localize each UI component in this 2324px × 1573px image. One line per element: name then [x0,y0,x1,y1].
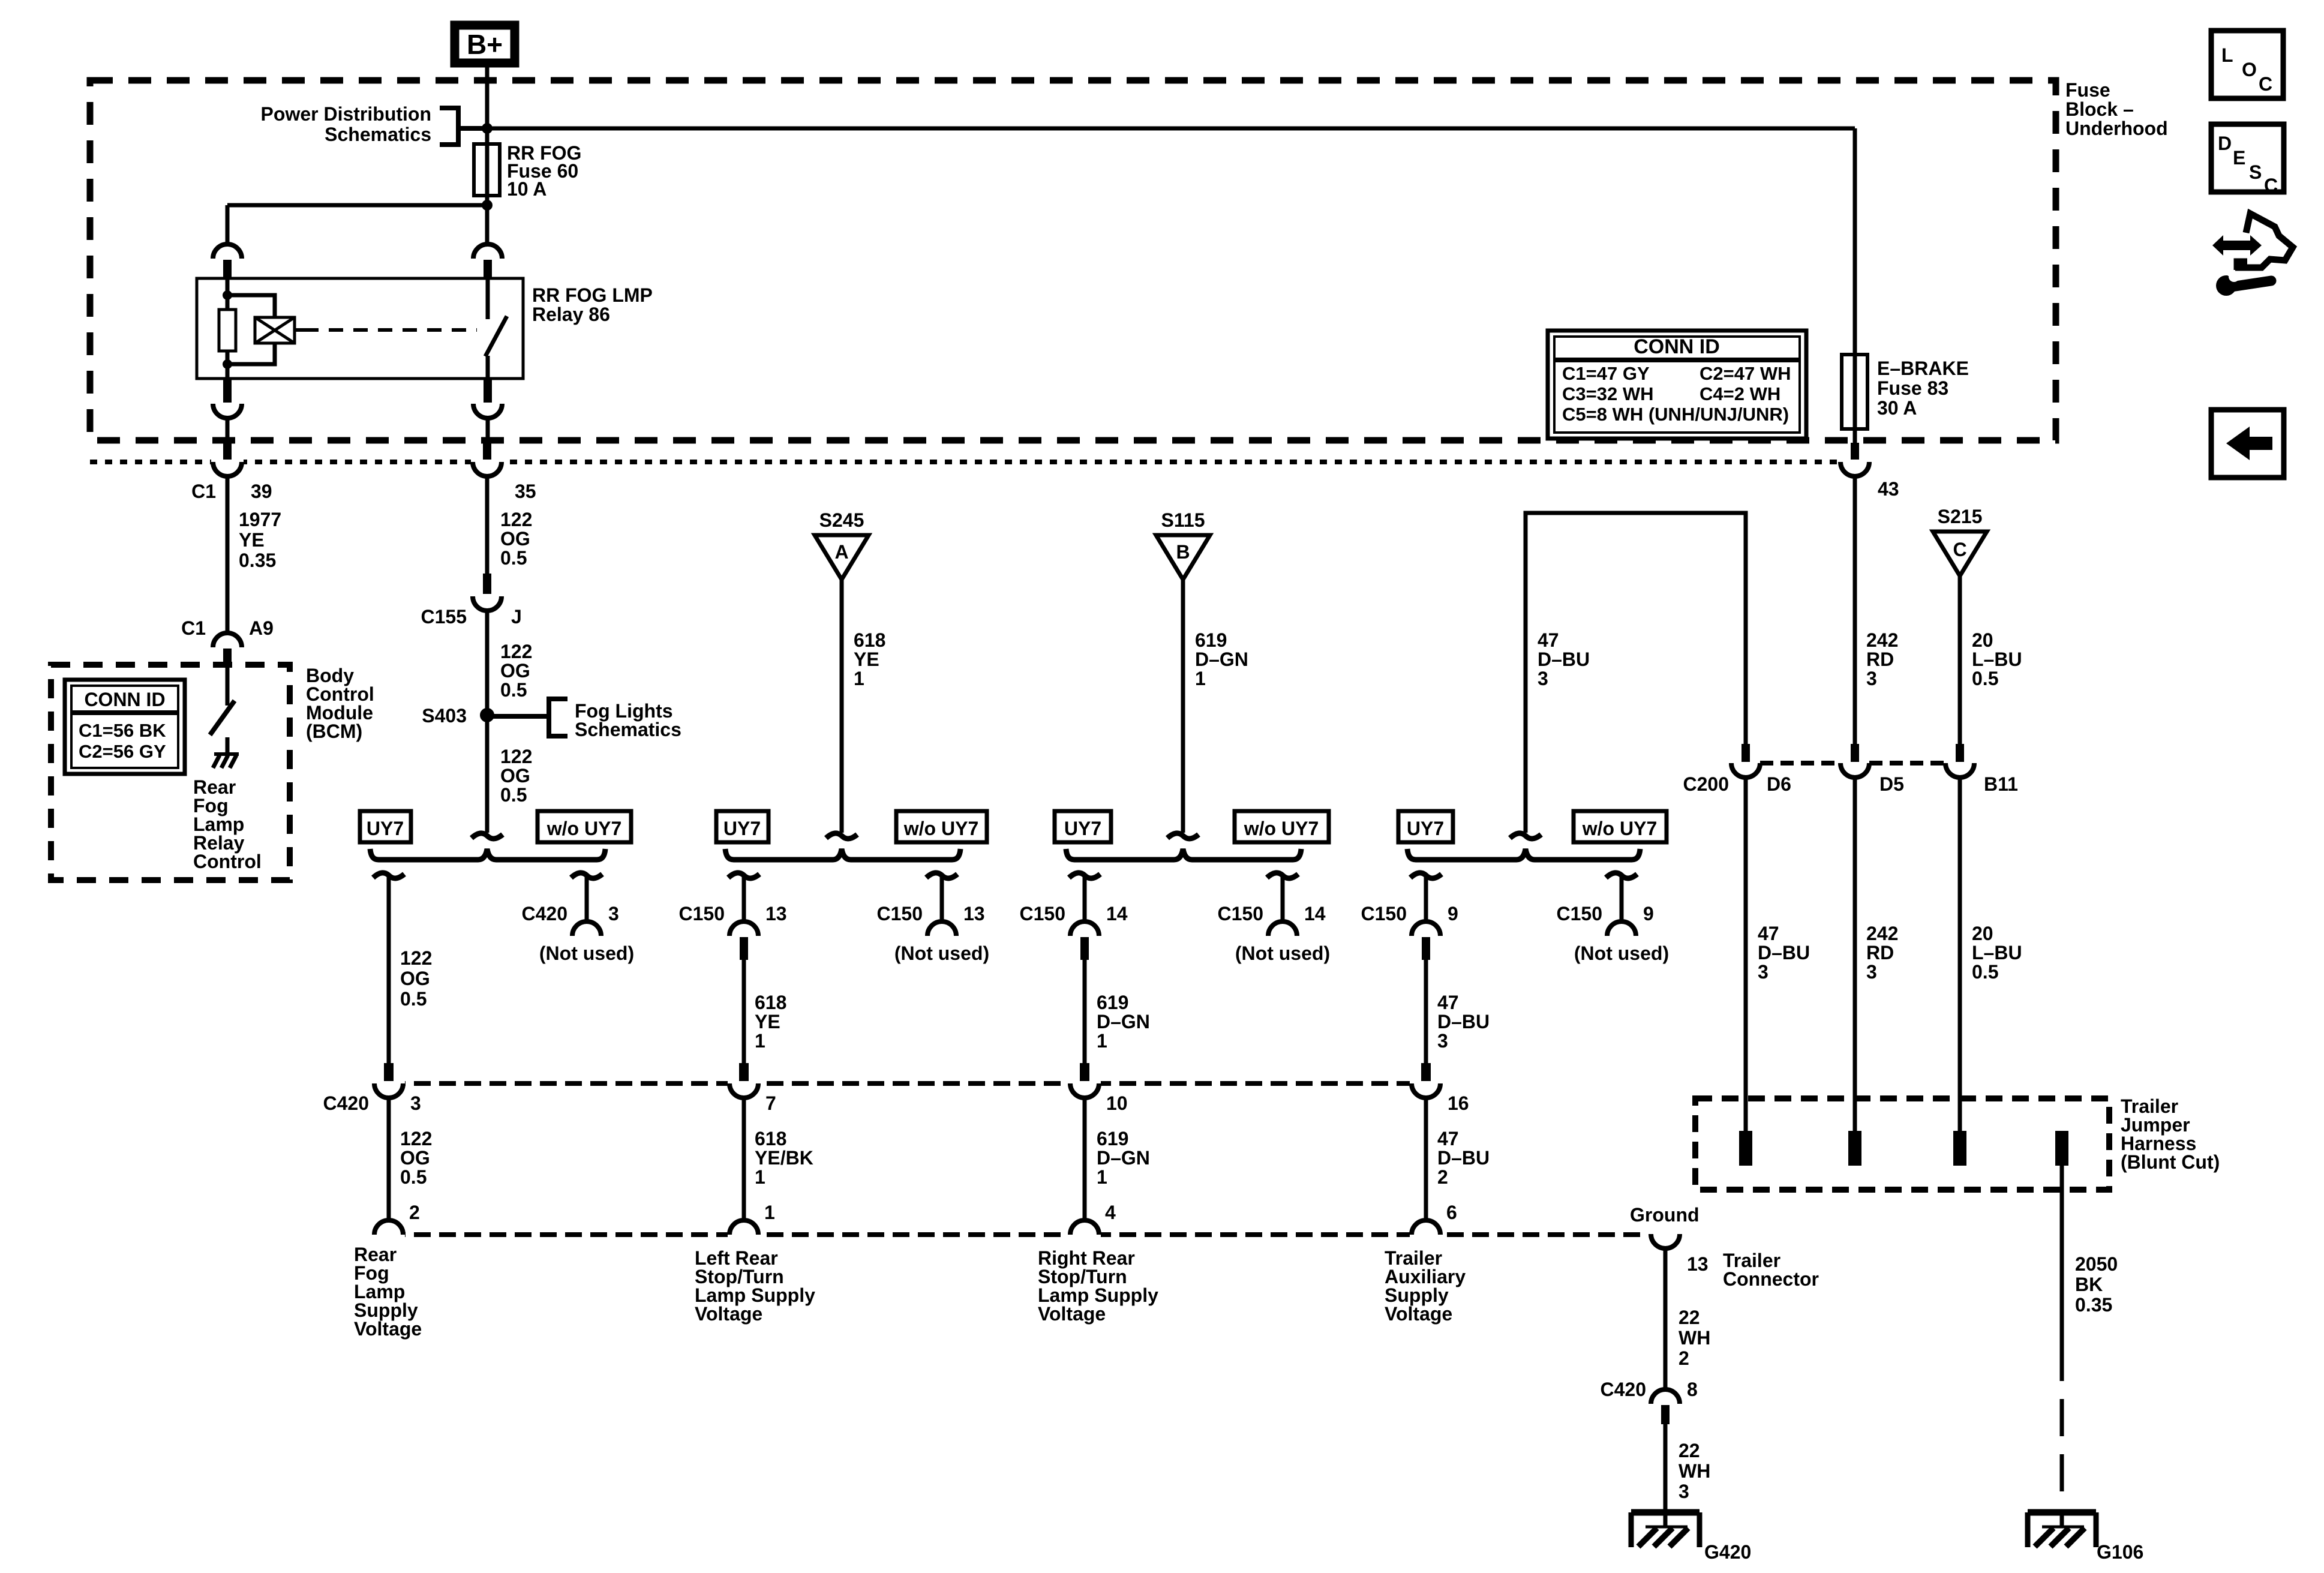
option box UY7 (group at x=1403) [716,811,768,842]
terminal pin C155 pin J [483,574,491,594]
svg-text:G106: G106 [2097,1541,2143,1563]
svg-text:C420: C420 [323,1092,370,1114]
svg-text:w/o UY7: w/o UY7 [903,818,978,839]
wire left branch lower x=1808 [1083,960,1087,1063]
blunt-cut terminal x=3092 [1848,1131,1861,1166]
connector half underhood cavity 35 [471,457,503,467]
connector half relay pin top-left [213,244,242,259]
wire-break mark left branch break x=648 [373,873,404,878]
wire relay coil-left lower [226,351,230,379]
wire left branch lower x=2377 [1424,960,1428,1063]
svg-text:A9: A9 [249,617,274,639]
wire circuit 22 WH segment 2 [1664,1424,1668,1527]
wire circuit 47 D-BU to trailer harness [1744,778,1748,1131]
wire left branch upper x=2377 [1424,876,1428,923]
wire drop below row1 x=1808 [1083,1098,1087,1220]
svg-text:w/o UY7: w/o UY7 [1244,818,1319,839]
wire left branch lower x=1240 [742,960,746,1063]
svg-text:C1=56 BKC2=56 GY: C1=56 BKC2=56 GY [79,720,166,762]
svg-text:4: 4 [1105,1202,1116,1223]
icon LOC box [2211,31,2283,98]
blunt-cut terminal x=3267 [1953,1131,1966,1166]
terminal pin underhood pin 43 [1851,443,1859,460]
terminal pin relay top-left [223,260,232,278]
terminal pin C200 pin B11 [1956,744,1964,762]
wire power bus drop through E-BRAKE fuse [1853,128,1857,443]
svg-text:C200: C200 [1683,773,1730,795]
wire relay out left [226,418,230,443]
wire circuit 20 L-BU from S215 [1958,576,1962,744]
resistor relay suppression [219,310,236,351]
load connector row dashed line [389,1232,1647,1237]
blunt-cut terminal x=3437 [2055,1131,2068,1166]
wire coil top link [227,295,275,317]
svg-text:Ground: Ground [1630,1204,1700,1226]
svg-text:C150: C150 [1361,903,1407,924]
connector half C150 cavity 14 (w/o UY7, not used) [1268,921,1297,936]
svg-text:(Not used): (Not used) [894,942,989,964]
svg-text:C155: C155 [421,606,467,628]
wire drop below row1 x=1240 [742,1098,746,1220]
wire left branch upper x=1808 [1083,876,1087,923]
wire coil bottom link [227,343,275,364]
wire-break mark 47 harness break [1510,833,1541,839]
wire right branch x=2138 [1281,876,1285,923]
svg-text:UY7: UY7 [1407,818,1444,839]
icon DESC box [2211,124,2284,192]
option box w/o UY7 (group at x=1403) [896,811,987,842]
wire circuit 2050 BK dashed (blunt cut) [2060,1344,2064,1527]
connector half C150 cavity 13 (w/o UY7, not used) [927,921,956,936]
harness split brace group at x=1972 [1066,849,1301,860]
svg-text:UY7: UY7 [1064,818,1101,839]
connector half C200 cavity D5 [1840,763,1869,778]
relay switch blade [485,316,507,356]
ground symbol G106 [2028,1512,2096,1547]
wire relay switch output [486,356,490,379]
svg-text:Fog LightsSchematics: Fog LightsSchematics [575,700,681,740]
wire power distribution bus to E-BRAKE fuse [487,127,1855,131]
svg-text:7: 7 [765,1092,776,1114]
wire circuit 1977 YE [226,476,230,634]
svg-text:w/o UY7: w/o UY7 [547,818,621,839]
svg-text:9: 9 [1448,903,1458,924]
connector half C150 cavity 9 (UY7) [1412,921,1440,936]
wire coil to actuator link [295,328,304,332]
connector half C200 cavity B11 [1945,763,1974,778]
svg-text:14: 14 [1106,903,1128,924]
svg-text:C420: C420 [1601,1379,1647,1400]
svg-text:(Not used): (Not used) [539,942,634,964]
connector half underhood cavity 43 [1839,457,1871,467]
harness split brace group at x=1403 [725,849,960,860]
junction relay coil bottom junction [223,359,232,369]
wire right branch x=2703 [1620,876,1624,923]
svg-text:C1: C1 [191,481,216,502]
svg-text:UY7: UY7 [367,818,404,839]
connector half C420 cavity 3 (w/o UY7, not used) [572,921,601,936]
terminal pin row pin 3 [384,1063,394,1081]
wire branch to relay coil [227,203,487,208]
svg-text:16: 16 [1448,1092,1469,1114]
option box UY7 (group at x=2543) [1398,811,1453,842]
Fuse Block Underhood dashed boundary box [90,80,2056,440]
svg-text:10: 10 [1106,1092,1128,1114]
svg-text:w/o UY7: w/o UY7 [1582,818,1657,839]
svg-text:1: 1 [764,1202,775,1223]
connector row dashed line (rear body) [389,1081,1426,1086]
svg-text:C150: C150 [679,903,725,924]
svg-text:2: 2 [409,1202,420,1223]
svg-text:8: 8 [1687,1379,1698,1400]
option box w/o UY7 (group at x=812) [538,811,631,842]
option box UY7 (group at x=1972) [1055,811,1111,842]
connector Trailer Jumper Harness dashed box [1695,1098,2109,1190]
reference bracket Power Distribution Schematics [440,108,487,145]
svg-text:C150: C150 [877,903,923,924]
wire circuit 242 RD to trailer harness [1853,778,1857,1131]
terminal pin C200 pin D5 [1851,744,1859,762]
svg-text:13: 13 [963,903,985,924]
wire coil side drop [226,205,230,245]
harness split brace group at x=812 [370,849,605,860]
connector half load cavity 4 [1068,1229,1101,1240]
svg-text:S215: S215 [1938,506,1983,527]
svg-text:C150: C150 [1557,903,1603,924]
reference bracket Fog Lights Schematics [487,699,568,736]
connector half C150 cavity 14 (UY7) [1070,921,1099,936]
connector half load cavity 6 [1410,1229,1442,1240]
ground BCM internal [213,754,239,768]
wire-break mark right branch break x=1570 [926,873,957,878]
connector half C1 pin A9 [213,633,242,647]
svg-text:6: 6 [1446,1202,1457,1223]
svg-text:D6: D6 [1767,773,1791,795]
wire drop below row1 x=2377 [1424,1098,1428,1220]
svg-text:G420: G420 [1704,1541,1751,1563]
wire B+ feed down to relay (through Fuse 60) [485,67,490,245]
connector half load cavity 1 [728,1229,760,1240]
terminal pin relay bottom-right [484,379,492,403]
terminal pin row pin 7 [739,1063,749,1081]
svg-text:(Not used): (Not used) [1235,942,1330,964]
svg-text:B11: B11 [1984,773,2018,795]
wire-break mark left branch break x=1240 [728,873,759,878]
connector half row cavity 3 [373,1078,405,1089]
wire relay out right [486,418,490,443]
terminal pin C200 pin D6 [1742,744,1750,762]
wire-break mark right branch break x=2703 [1606,873,1637,878]
wire drop below row1 x=648 [387,1098,391,1220]
table CONN ID (fuse block underhood) [1548,331,1806,439]
terminal pin relay top-right [484,260,492,278]
connector half C420 cavity 8 [1651,1389,1680,1404]
wire-break mark right branch break x=2138 [1267,873,1298,878]
svg-text:C150: C150 [1218,903,1264,924]
wire circuit 20 L-BU to trailer harness [1958,778,1962,1131]
connector half C1 cavity 39 [211,457,244,467]
svg-text:13: 13 [1687,1253,1709,1275]
fuse F83 E-BRAKE [1842,355,1867,429]
svg-text:C1: C1 [181,617,206,639]
wire BCM driver input [226,665,230,706]
svg-text:S115: S115 [1161,509,1205,531]
wire-break mark right branch break x=978 [571,873,602,878]
connector half row cavity 10 [1068,1078,1101,1089]
wire-break mark 619 harness break [1167,833,1199,839]
wire relay coil-left upper [226,278,230,310]
junction relay coil top junction [223,290,232,300]
wire relay switch fixed contact [486,278,490,319]
svg-text:39: 39 [251,481,272,502]
wire circuit 122 OG segment 2 [485,611,490,833]
wire circuit 122 OG segment 1 [485,476,490,574]
terminal pin C1 A9 pin [223,649,232,665]
terminal pin C420 pin 8 [1661,1405,1670,1424]
fuse F60 RR FOG [474,144,500,196]
blunt-cut terminal x=2910 [1739,1131,1752,1166]
terminal pin relay bottom-left [223,379,232,403]
icon wrench and arrow (wiring repair) [2212,214,2293,296]
svg-text:35: 35 [515,481,536,502]
junction splice S403 [480,708,494,722]
wire left branch upper x=1240 [742,876,746,923]
wire-break mark 122 OG harness break [472,833,503,839]
wire circuit 619 D-GN from S115 [1181,580,1185,833]
module BCM dashed box [51,665,290,880]
svg-text:43: 43 [1878,478,1899,500]
wire circuit 2050 BK solid [2060,1166,2064,1344]
switch BCM low-side driver [210,701,235,735]
svg-text:D5: D5 [1879,773,1904,795]
svg-text:B: B [1176,541,1190,563]
connector half row cavity 16 [1410,1078,1442,1089]
terminal pin C150 pin 9 (UY7) [1422,937,1430,960]
connector half relay socket bottom-left [213,404,242,418]
option box w/o UY7 (group at x=1972) [1235,811,1329,842]
svg-text:C: C [1953,539,1966,560]
connector half C155 cavity J [473,596,502,611]
wire circuit 22 WH segment 1 [1664,1248,1668,1389]
junction B+ / power bus junction [482,123,493,134]
ground symbol G420 [1631,1512,1700,1547]
terminal pin underhood pin 35 [483,443,491,460]
terminal pin C150 pin 13 (UY7) [740,937,748,960]
harness split brace group at x=2543 [1407,849,1640,860]
connector half C150 cavity 9 (w/o UY7, not used) [1607,921,1636,936]
terminal pin C1 pin 39 [223,443,232,460]
svg-text:3: 3 [608,903,619,924]
svg-text:S245: S245 [819,509,864,531]
wire-break mark 618 harness break [826,833,857,839]
wire BCM driver to ground [226,737,230,752]
wire-break mark left branch break x=2377 [1410,873,1442,878]
option box w/o UY7 (group at x=2543) [1574,811,1667,842]
connector half row cavity 7 [728,1078,760,1089]
svg-text:(Not used): (Not used) [1574,942,1669,964]
wire circuit 242 RD [1853,476,1857,744]
connector half C200 cavity D6 [1731,763,1760,778]
svg-text:A: A [834,541,848,563]
connector half load cavity 2 [373,1229,405,1240]
junction fuse60 output junction [482,200,493,211]
svg-text:B+: B+ [467,29,503,60]
connector half C150 cavity 13 (UY7) [729,921,758,936]
wire circuit 47 D-BU loop [1526,513,1746,833]
svg-text:CONN ID: CONN ID [1634,335,1720,358]
connector half trailer connector cavity 13 [1649,1229,1682,1239]
relay K86 RR FOG LMP box [197,278,523,379]
svg-text:C420: C420 [522,903,568,924]
svg-text:C150: C150 [1020,903,1066,924]
wire right branch x=978 [585,876,589,923]
wire left branch x=648 [387,876,391,1063]
harness boundary dotted line [90,460,1855,464]
connector row C200 dashed line [1760,761,1840,766]
svg-text:C2=47 WHC4=2 WH: C2=47 WHC4=2 WH [1700,363,1791,404]
relay coil winding [255,317,295,343]
wire-break mark left branch break x=1808 [1069,873,1100,878]
svg-text:UY7: UY7 [723,818,761,839]
connector half relay socket bottom-right [473,404,502,418]
relay actuator dashed link [304,328,477,332]
terminal pin row pin 10 [1080,1063,1089,1081]
wire circuit 618 YE from S245 [840,580,844,833]
option box UY7 (group at x=812) [360,811,411,842]
svg-text:14: 14 [1304,903,1326,924]
icon back arrow box [2211,410,2284,478]
terminal pin row pin 16 [1421,1063,1431,1081]
table CONN ID (BCM) [65,680,185,774]
svg-text:3: 3 [410,1092,421,1114]
svg-text:J: J [511,606,522,628]
svg-text:13: 13 [765,903,787,924]
node B+ battery feed [446,17,523,71]
svg-text:S403: S403 [422,705,467,727]
wire right branch x=1570 [940,876,944,923]
terminal pin C150 pin 14 (UY7) [1080,937,1089,960]
svg-text:9: 9 [1643,903,1654,924]
svg-text:CONN ID: CONN ID [84,689,165,710]
connector half relay pin top-right [473,244,502,259]
